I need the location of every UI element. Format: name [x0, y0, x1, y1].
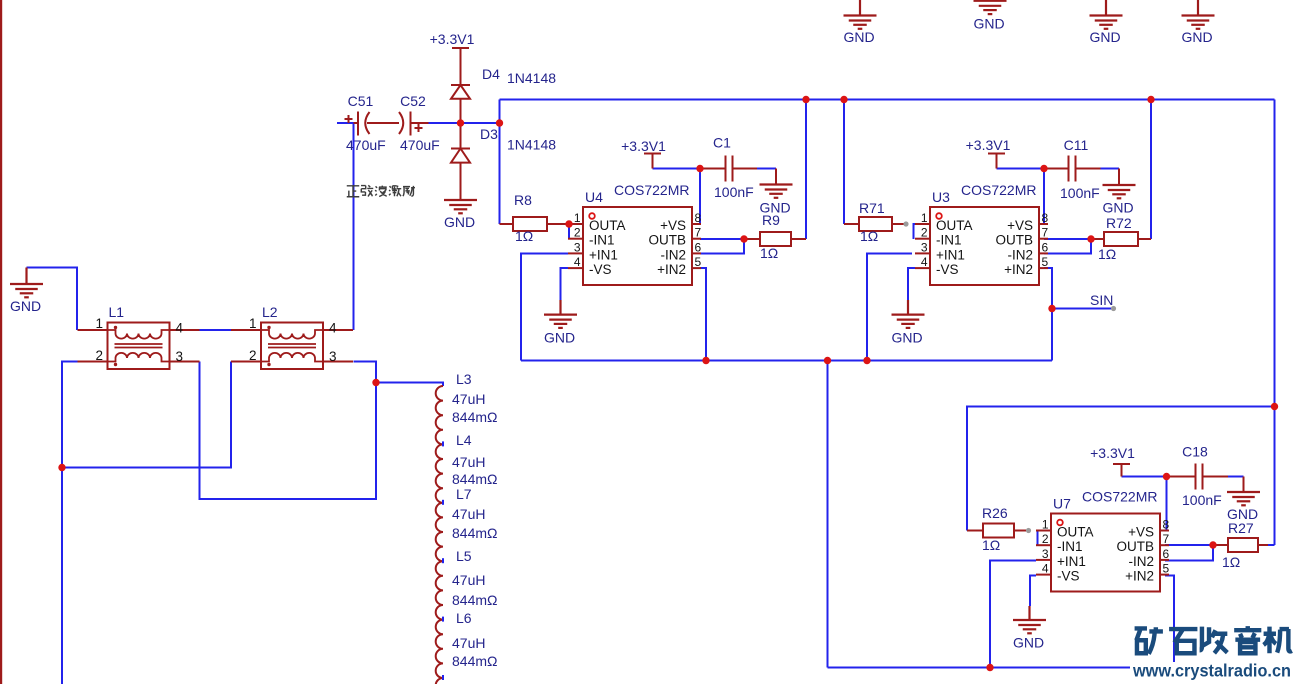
- svg-text:1: 1: [574, 211, 581, 225]
- op-amp U4 COS722MR: [568, 207, 701, 285]
- svg-text:4: 4: [176, 321, 184, 336]
- capacitor C52 (polarized): [399, 112, 429, 136]
- svg-text:5: 5: [1042, 255, 1049, 269]
- wire diode junction to R8 column: [461, 122, 500, 124]
- svg-text:L5: L5: [456, 548, 472, 564]
- svg-text:470uF: 470uF: [346, 137, 386, 153]
- svg-text:2: 2: [921, 226, 928, 240]
- svg-text:3: 3: [921, 240, 928, 254]
- junction dot top bus R9: [802, 96, 809, 103]
- wire C18 gnd stem: [1243, 477, 1245, 493]
- svg-text:C51: C51: [348, 93, 374, 109]
- svg-text:1: 1: [1042, 518, 1049, 532]
- svg-text:100nF: 100nF: [1182, 492, 1222, 508]
- svg-text:C1: C1: [713, 135, 731, 151]
- inductor chain link ticks: [442, 441, 444, 446]
- svg-text:OUTB: OUTB: [995, 233, 1033, 248]
- svg-text:844mΩ: 844mΩ: [452, 409, 498, 425]
- wire right drop from top bus to R27: [1274, 100, 1276, 546]
- junction dot right column U7 feed: [1271, 403, 1278, 410]
- svg-text:-IN1: -IN1: [1057, 539, 1083, 554]
- svg-text:+IN1: +IN1: [936, 247, 965, 262]
- wire U4 pin7 to R9: [700, 238, 744, 240]
- svg-text:-IN1: -IN1: [936, 233, 962, 248]
- svg-text:U4: U4: [585, 189, 603, 205]
- svg-text:1Ω: 1Ω: [515, 228, 533, 244]
- svg-text:8: 8: [695, 211, 702, 225]
- diode D3 1N4148: [451, 123, 470, 200]
- svg-text:GND: GND: [1181, 29, 1212, 45]
- svg-text:+3.3V1: +3.3V1: [621, 138, 666, 154]
- wire L1 pin2 loop down-left: [62, 362, 78, 684]
- wire R8 feed from D3 node: [499, 223, 502, 225]
- svg-text:OUTA: OUTA: [589, 218, 626, 233]
- svg-text:47uH: 47uH: [452, 506, 485, 522]
- wire right column feed to U7 / R26: [967, 407, 1275, 531]
- resistor R26: [967, 524, 1026, 538]
- svg-text:3: 3: [329, 349, 337, 364]
- wire L2 pin2 down to junction row: [62, 362, 231, 468]
- svg-text:-IN2: -IN2: [1007, 247, 1033, 262]
- junction dot +3.3V/C11/U3 pin8: [1040, 165, 1047, 172]
- wire U4 pin4 to GND: [561, 268, 569, 300]
- svg-text:GND: GND: [759, 200, 790, 216]
- svg-text:COS722MR: COS722MR: [961, 182, 1036, 198]
- svg-text:+VS: +VS: [660, 218, 686, 233]
- svg-text:GND: GND: [1227, 506, 1258, 522]
- svg-text:5: 5: [1163, 562, 1170, 576]
- resistor R9: [744, 232, 806, 246]
- svg-text:844mΩ: 844mΩ: [452, 653, 498, 669]
- resistor R27: [1213, 538, 1268, 552]
- transformer L2: [231, 323, 353, 370]
- svg-text:47uH: 47uH: [452, 572, 485, 588]
- junction dot +3.3V/C18/U7 pin8: [1163, 473, 1170, 480]
- watermark crystalradio logo (Chinese): [1135, 627, 1163, 654]
- svg-text:47uH: 47uH: [452, 391, 485, 407]
- capacitor C18 100nF: [1167, 464, 1229, 490]
- junction dot mid bus U4 pin5: [702, 357, 709, 364]
- svg-text:COS722MR: COS722MR: [1082, 489, 1157, 505]
- junction dot mid bus drop: [824, 357, 831, 364]
- svg-text:C52: C52: [400, 93, 426, 109]
- junction dot bottom bus U7 pin3: [986, 664, 993, 671]
- svg-text:6: 6: [1042, 240, 1049, 254]
- svg-text:L1: L1: [109, 304, 125, 320]
- junction dot SIN tap: [1048, 305, 1055, 312]
- power +3.3V1 (U4): [644, 154, 661, 169]
- ground (U7 -VS): [1013, 606, 1046, 633]
- wire U4 pin6 tie to OUTB: [700, 239, 744, 254]
- wire U3 pin1 hook: [914, 224, 927, 239]
- svg-text:6: 6: [1163, 547, 1170, 561]
- junction dot +3.3V/C1/U4 pin8: [696, 165, 703, 172]
- svg-text:8: 8: [1042, 211, 1049, 225]
- svg-text:R27: R27: [1228, 520, 1254, 536]
- svg-text:GND: GND: [444, 214, 475, 230]
- wire U7 pin8 up to +3.3V node: [1166, 477, 1168, 531]
- wire C52 to diode junction: [429, 122, 461, 124]
- svg-text:GND: GND: [1102, 200, 1133, 216]
- svg-text:OUTB: OUTB: [648, 233, 686, 248]
- wire U3 pin3 to mid bus: [867, 254, 912, 361]
- wire U3 pin6 tie to OUTB: [1044, 239, 1091, 254]
- svg-text:1Ω: 1Ω: [760, 245, 778, 261]
- svg-text:1: 1: [921, 211, 928, 225]
- svg-text:L7: L7: [456, 486, 472, 502]
- svg-text:1Ω: 1Ω: [860, 228, 878, 244]
- ground (top 4): [1182, 0, 1215, 29]
- svg-text:GND: GND: [891, 330, 922, 346]
- ground (C1): [760, 185, 793, 198]
- wire left GND to L1 pin 1: [27, 268, 78, 331]
- svg-text:2: 2: [95, 348, 103, 363]
- resistor R71: [844, 217, 904, 231]
- svg-text:+VS: +VS: [1007, 218, 1033, 233]
- svg-text:1Ω: 1Ω: [1222, 554, 1240, 570]
- ground (left, L1 input): [10, 268, 43, 298]
- svg-text:GND: GND: [1089, 29, 1120, 45]
- capacitor C1 100nF: [700, 156, 757, 182]
- svg-text:-IN2: -IN2: [1128, 554, 1154, 569]
- ground (U4 -VS): [544, 300, 577, 328]
- transformer L1: [78, 323, 200, 370]
- svg-text:SIN: SIN: [1090, 292, 1113, 308]
- inductor chain L3/L4/L7/L5/L6 coils: [436, 386, 443, 684]
- junction dot U7 OUTB node: [1209, 541, 1216, 548]
- no-connect dot R26 output: [1026, 528, 1031, 533]
- svg-text:R71: R71: [859, 200, 885, 216]
- wire R27 right to right column: [1268, 544, 1275, 546]
- svg-text:www.crystalradio.cn: www.crystalradio.cn: [1132, 661, 1291, 681]
- sheet border (left edge): [0, 0, 2, 684]
- svg-text:3: 3: [176, 349, 184, 364]
- svg-text:-VS: -VS: [589, 262, 612, 277]
- svg-text:5: 5: [695, 255, 702, 269]
- ground (top 1): [844, 0, 877, 29]
- svg-text:+3.3V1: +3.3V1: [1090, 445, 1135, 461]
- svg-text:8: 8: [1163, 518, 1170, 532]
- svg-text:GND: GND: [544, 330, 575, 346]
- svg-text:+IN1: +IN1: [589, 247, 618, 262]
- op-amp U3 COS722MR: [915, 207, 1048, 285]
- capacitor C51 (polarized): [345, 112, 400, 136]
- power +3.3V1 (U3): [988, 154, 1005, 169]
- svg-text:100nF: 100nF: [1060, 185, 1100, 201]
- svg-text:+IN1: +IN1: [1057, 554, 1086, 569]
- svg-text:OUTB: OUTB: [1116, 539, 1154, 554]
- capacitor C11 100nF: [1044, 156, 1101, 182]
- svg-text:+3.3V1: +3.3V1: [966, 137, 1011, 153]
- svg-text:R72: R72: [1106, 215, 1132, 231]
- power +3.3V1 (U7): [1113, 464, 1130, 477]
- wire mid bus: [521, 360, 1052, 362]
- wire L1 pin4 to L2 pin1: [200, 329, 232, 331]
- svg-text:+IN2: +IN2: [657, 262, 686, 277]
- svg-text:+IN2: +IN2: [1125, 569, 1154, 584]
- ground (under D3): [444, 200, 477, 213]
- svg-text:-IN2: -IN2: [660, 247, 686, 262]
- svg-text:1Ω: 1Ω: [982, 537, 1000, 553]
- wire U4 pin5 down to mid bus: [700, 268, 706, 361]
- svg-text:4: 4: [574, 255, 581, 269]
- wire top bus down to R71: [843, 100, 845, 225]
- wire U7 pin3 down to bottom bus: [990, 561, 1036, 668]
- wire C11 gnd stem: [1118, 169, 1120, 186]
- svg-text:OUTA: OUTA: [936, 218, 973, 233]
- op-amp U7 COS722MR: [1036, 514, 1169, 592]
- svg-text:47uH: 47uH: [452, 454, 485, 470]
- svg-text:L3: L3: [456, 371, 472, 387]
- wire U7 pin1 hook: [1038, 531, 1048, 546]
- ground (C11): [1103, 185, 1136, 198]
- svg-text:1N4148: 1N4148: [507, 70, 556, 86]
- wire bottom bus: [828, 667, 1131, 669]
- svg-text:U7: U7: [1053, 496, 1071, 512]
- wire U7 pin5 down: [1165, 576, 1174, 663]
- svg-text:OUTA: OUTA: [1057, 525, 1094, 540]
- wire R9 up to top bus: [805, 100, 807, 240]
- svg-text:2: 2: [574, 226, 581, 240]
- svg-text:1: 1: [95, 316, 103, 331]
- svg-text:L2: L2: [262, 304, 278, 320]
- ground (top 2): [974, 1, 1007, 14]
- wire +3.3V1 to C18 node (U7): [1122, 476, 1167, 478]
- svg-text:1Ω: 1Ω: [1098, 246, 1116, 262]
- svg-text:-IN1: -IN1: [589, 233, 615, 248]
- svg-text:-VS: -VS: [1057, 569, 1080, 584]
- svg-text:+VS: +VS: [1128, 525, 1154, 540]
- power +3.3V1 (top): [452, 48, 469, 85]
- svg-text:7: 7: [1163, 532, 1170, 546]
- svg-text:D3: D3: [480, 126, 498, 142]
- svg-text:U3: U3: [932, 189, 950, 205]
- wire +3.3V1 to C1 node (U4): [653, 168, 701, 170]
- svg-text:3: 3: [574, 240, 581, 254]
- resistor R8: [500, 217, 570, 231]
- svg-text:7: 7: [695, 226, 702, 240]
- svg-text:GND: GND: [973, 16, 1004, 32]
- wire U3 pin5 down to mid bus / SIN tap: [1044, 268, 1052, 361]
- wire U7 pin7 to R27: [1165, 544, 1213, 546]
- junction dot U3 OUTB node: [1087, 235, 1094, 242]
- wire U3 pin7 to R72: [1044, 238, 1091, 240]
- junction dot U4 OUTB node: [740, 235, 747, 242]
- svg-text:6: 6: [695, 240, 702, 254]
- junction dot L2/L3 node: [372, 379, 379, 386]
- wire mid bus down to bottom bus: [827, 361, 829, 668]
- svg-text:L6: L6: [456, 610, 472, 626]
- svg-text:7: 7: [1042, 226, 1049, 240]
- ground (U3 -VS): [892, 300, 925, 328]
- ground (C18): [1227, 492, 1260, 505]
- wire R72 up to top bus: [1150, 100, 1152, 240]
- no-connect dot SIN end: [1111, 306, 1116, 311]
- svg-text:GND: GND: [843, 29, 874, 45]
- svg-text:C18: C18: [1182, 444, 1208, 460]
- junction dot L1/L2 secondary tie: [58, 464, 65, 471]
- wire D3 node down to R8: [499, 100, 501, 225]
- junction dot mid bus U3 pin3: [863, 357, 870, 364]
- svg-text:R8: R8: [514, 192, 532, 208]
- svg-text:D4: D4: [482, 66, 500, 82]
- svg-text:844mΩ: 844mΩ: [452, 525, 498, 541]
- svg-text:1N4148: 1N4148: [507, 137, 556, 153]
- wire top bus: [500, 99, 1275, 101]
- svg-text:47uH: 47uH: [452, 635, 485, 651]
- ground (top 3): [1090, 0, 1123, 29]
- resistor R72: [1091, 232, 1151, 246]
- svg-text:+3.3V1: +3.3V1: [430, 31, 475, 47]
- junction dot D4/D3/caps node: [457, 119, 464, 126]
- svg-text:-VS: -VS: [936, 262, 959, 277]
- junction dot D3 right node: [496, 119, 503, 126]
- svg-text:GND: GND: [1013, 635, 1044, 651]
- wire U7 pin4 to GND: [1030, 576, 1036, 607]
- svg-text:844mΩ: 844mΩ: [452, 471, 498, 487]
- wire C18 right lead blue part: [1228, 476, 1244, 478]
- wire U4 pin1-pin2 tie: [568, 224, 570, 239]
- junction dot R8 to U4 pin1: [565, 220, 572, 227]
- wire C51 left lead down to L2 pin 4: [353, 123, 355, 330]
- wire C1 gnd stem: [775, 169, 777, 185]
- wire U4 pin8 up to +3.3V node: [699, 169, 701, 225]
- no-connect dot R71 output: [903, 221, 908, 226]
- svg-text:3: 3: [1042, 547, 1049, 561]
- svg-text:2: 2: [249, 348, 257, 363]
- svg-text:4: 4: [921, 255, 928, 269]
- svg-text:L4: L4: [456, 432, 472, 448]
- svg-text:100nF: 100nF: [714, 184, 754, 200]
- wire U3 pin4 to GND: [908, 268, 915, 300]
- svg-text:2: 2: [1042, 532, 1049, 546]
- wire C11 right lead blue part: [1101, 168, 1120, 170]
- wire C1 right lead blue part: [757, 168, 776, 170]
- wire cap input stub: [337, 122, 354, 124]
- svg-text:4: 4: [1042, 562, 1049, 576]
- svg-text:4: 4: [329, 321, 337, 336]
- wire L1 pin3 down and right: [200, 362, 377, 500]
- diode D4 1N4148: [451, 85, 470, 123]
- svg-text:470uF: 470uF: [400, 137, 440, 153]
- svg-text:R26: R26: [982, 505, 1008, 521]
- wire U3 pin8 up to +3.3V node: [1043, 169, 1045, 225]
- junction dot top bus R71: [840, 96, 847, 103]
- svg-text:COS722MR: COS722MR: [614, 182, 689, 198]
- svg-text:+IN2: +IN2: [1004, 262, 1033, 277]
- svg-text:C11: C11: [1064, 137, 1089, 153]
- wire node to L3 chain: [376, 383, 443, 387]
- svg-text:GND: GND: [10, 298, 41, 314]
- junction dot top bus R72: [1147, 96, 1154, 103]
- wire SIN stub: [1052, 308, 1112, 310]
- wire U7 pin6 tie to OUTB: [1165, 545, 1213, 561]
- wire +3.3V1 to C11 node (U3): [997, 168, 1045, 170]
- annotation sine-wave excitation (Chinese): [347, 186, 359, 197]
- wire U4 pin3 to mid bus: [521, 254, 568, 361]
- svg-text:1: 1: [249, 316, 257, 331]
- svg-text:844mΩ: 844mΩ: [452, 592, 498, 608]
